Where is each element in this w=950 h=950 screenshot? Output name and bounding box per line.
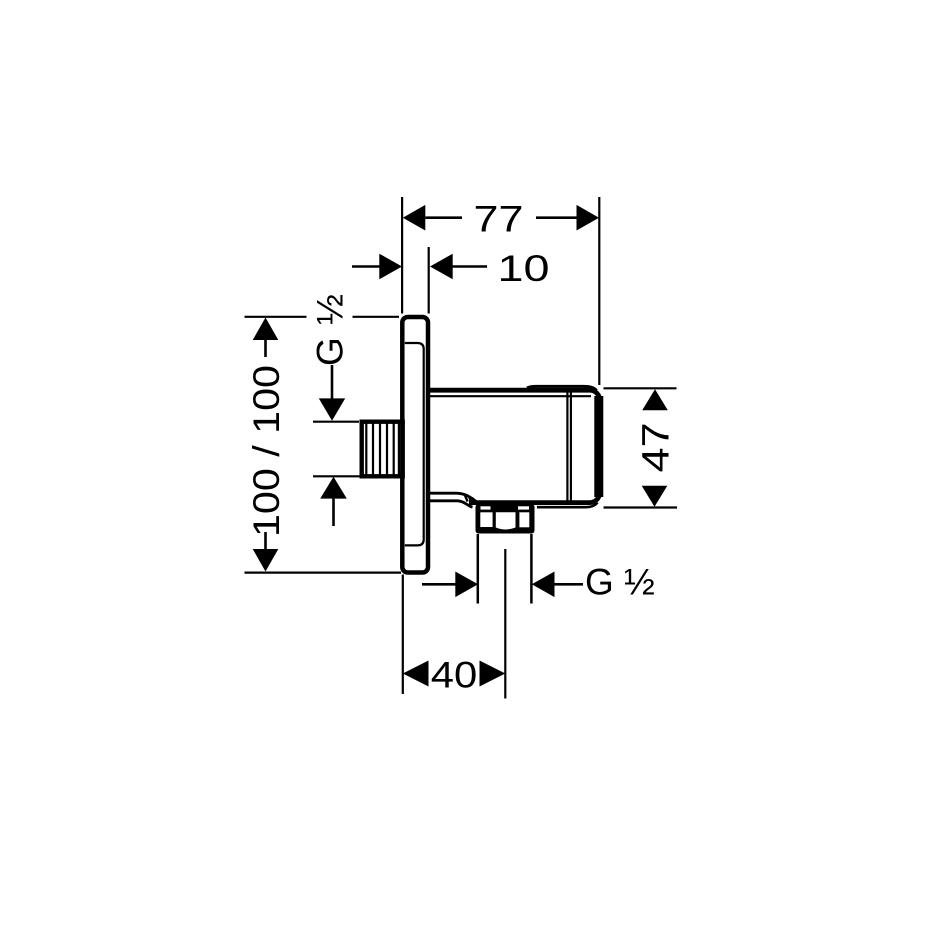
extension line top (y=388.3) for dim 47 <box>604 387 677 389</box>
wall plate escutcheon outer <box>402 317 428 573</box>
svg-text:47: 47 <box>636 422 678 472</box>
threaded inlet spigot G1/2 <box>362 422 403 477</box>
extension line right (x=599) for dim 77 <box>598 197 600 385</box>
svg-text:77: 77 <box>474 199 524 240</box>
extension line bottom (y=507.5) for dim 47 <box>604 506 678 508</box>
extension line left (x=402.8) for dim 40 <box>402 575 404 695</box>
G 1/2 top label (rotated) <box>310 293 351 366</box>
dimension 10 arrows and line <box>352 254 487 280</box>
outlet hex nut <box>476 504 535 534</box>
extension line top (y=316.8) for dim 100/100 with gap for half glyph <box>245 316 400 318</box>
dimension 40 arrows <box>403 661 506 687</box>
G 1/2 top extension line upper <box>313 421 359 423</box>
G 1/2 top leader arrow down <box>319 365 345 421</box>
extension line bottom (y=572.6) for dim 100/100 <box>245 571 402 573</box>
body inner top line <box>429 395 591 397</box>
wall plate inner rim line <box>405 343 424 545</box>
dimension 40 label <box>431 655 478 696</box>
body top lip line <box>527 386 597 390</box>
body bottom lip line <box>537 503 598 508</box>
body rear neck upper contour with step <box>430 493 477 502</box>
body outer outline <box>429 390 600 502</box>
svg-text:100 / 100: 100 / 100 <box>246 365 287 537</box>
outlet pipe sides / G1/2 extension lines <box>478 534 532 604</box>
dimension 100/100 label (rotated) <box>246 365 287 537</box>
svg-text:G ½: G ½ <box>585 562 655 603</box>
dimension 47 arrows <box>642 389 668 506</box>
G 1/2 top extension line lower <box>313 475 371 477</box>
dimension 100/100 vertical line with arrows <box>253 318 279 572</box>
G 1/2 top leader arrow up <box>320 477 347 526</box>
body rear neck lower contour with step <box>430 501 473 507</box>
step hatch ticks <box>465 495 473 505</box>
svg-text:10: 10 <box>498 248 550 289</box>
dimension 77 label <box>474 199 524 240</box>
extension line left (x=402) for dims 77/10 <box>401 197 403 314</box>
extension line (x=428.7) for dim 10 <box>428 247 430 314</box>
outlet centerline <box>504 549 506 699</box>
dimension 77 arrows and line <box>403 205 599 231</box>
svg-text:G ½: G ½ <box>310 293 351 366</box>
body right edge thick overlay <box>594 396 603 497</box>
body holder separation double lines <box>567 392 571 501</box>
dimension 47 label (rotated) <box>636 422 678 472</box>
dimension 10 label <box>498 248 550 289</box>
dimension G 1/2 bottom arrows <box>422 572 583 598</box>
svg-text:40: 40 <box>431 655 478 696</box>
G 1/2 bottom label <box>585 562 655 603</box>
